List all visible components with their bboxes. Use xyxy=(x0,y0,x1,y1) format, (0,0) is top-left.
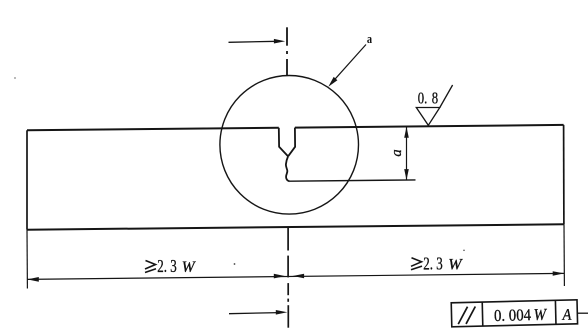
svg-text:W: W xyxy=(448,256,463,273)
svg-text:2. 3: 2. 3 xyxy=(157,257,177,276)
svg-text:2. 3: 2. 3 xyxy=(423,255,443,274)
svg-text:W: W xyxy=(182,259,197,276)
svg-text:0.: 0. xyxy=(418,90,428,108)
svg-text:8: 8 xyxy=(432,90,438,108)
svg-text:a: a xyxy=(367,32,372,46)
svg-text:W: W xyxy=(533,306,548,324)
svg-text:0. 004: 0. 004 xyxy=(494,306,532,325)
svg-text:a: a xyxy=(389,149,405,156)
svg-text:A: A xyxy=(561,306,572,324)
